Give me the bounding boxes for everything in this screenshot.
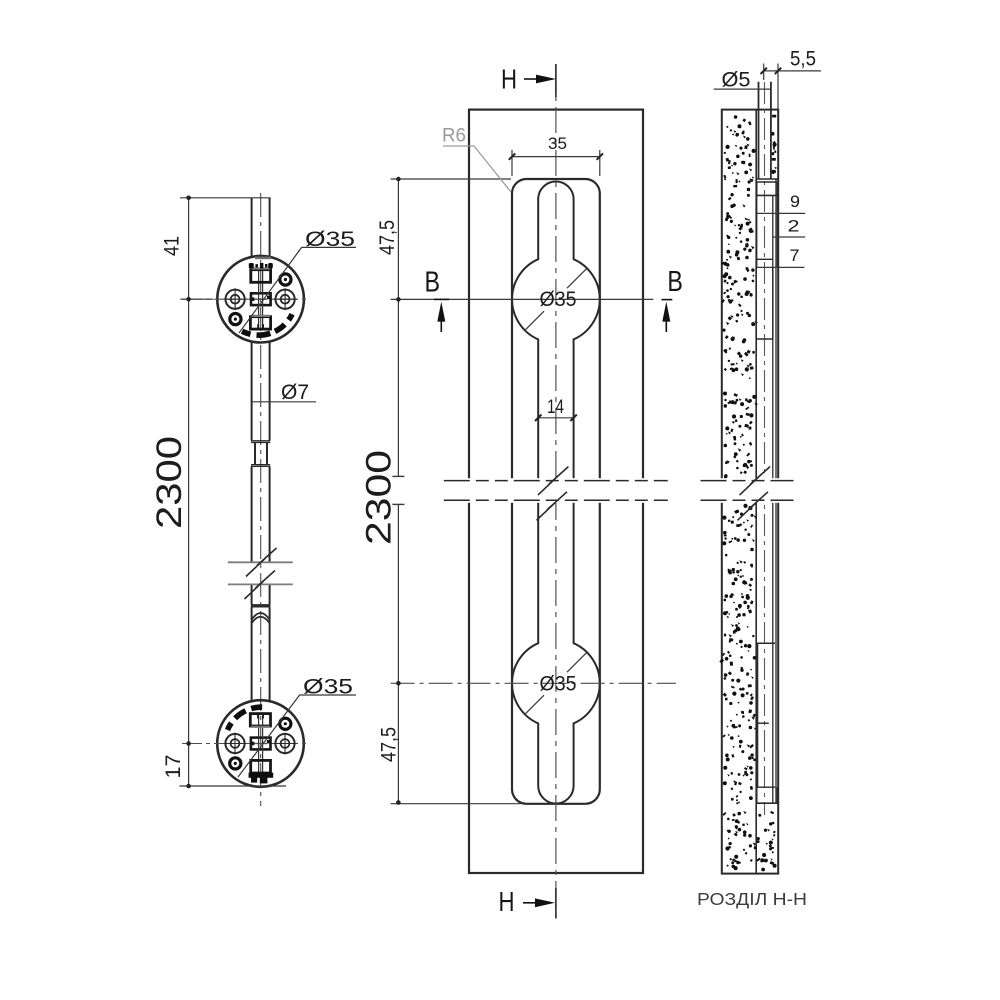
panel groove line (755, 110, 757, 874)
dim 14 tick left (535, 415, 541, 421)
dim tick middle (396, 177, 401, 182)
svg-text:2: 2 (788, 217, 800, 236)
left view vertical centerline (260, 193, 262, 806)
dim 14 tick right (570, 415, 576, 421)
rod bottom segment (252, 608, 270, 702)
dim tick middle (396, 297, 401, 302)
rod mid shank (756, 267, 773, 339)
top cam circle O35 (217, 256, 304, 343)
right zigzag upper (740, 467, 771, 496)
rod feature line 7 (757, 266, 805, 268)
svg-text:2300: 2300 (150, 436, 189, 529)
dim tick middle (396, 800, 401, 805)
svg-text:Ø35: Ø35 (540, 288, 577, 311)
extension line circle1 center (180, 298, 213, 300)
svg-text:B: B (425, 267, 441, 299)
rod joint dome (252, 613, 270, 623)
rod washer line (757, 258, 773, 260)
rod feature line 2 (772, 236, 805, 238)
middle vertical centerline (555, 64, 557, 918)
middle zigzag upper (538, 467, 569, 496)
rod step upper (251, 441, 270, 443)
left break line lower (228, 583, 293, 585)
section B-B line (391, 298, 654, 300)
chipboard speckle texture (719, 115, 777, 872)
section H top arrow (524, 78, 536, 80)
rod shank line (772, 195, 774, 803)
panel outline (722, 110, 778, 874)
svg-text:5,5: 5,5 (790, 48, 816, 71)
rod feature line 9 (757, 212, 806, 214)
leader O7 (252, 401, 316, 403)
extension line rod top (180, 197, 271, 199)
bottom cam circle O35 (217, 700, 304, 787)
dim tick (186, 297, 191, 302)
extension slot bottom (391, 803, 521, 805)
rod lower segment lines (757, 643, 759, 787)
svg-text:H: H (501, 64, 517, 95)
svg-text:Ø35: Ø35 (303, 676, 353, 699)
left break line upper (228, 561, 293, 563)
section H bottom arrow (523, 902, 535, 904)
svg-text:35: 35 (548, 134, 567, 153)
dim 5,5 extension lines (764, 64, 778, 110)
rod middle segment (252, 466, 270, 561)
rod head top (756, 178, 778, 180)
svg-text:Ø35: Ø35 (540, 673, 577, 696)
section H top tick (555, 64, 557, 97)
section H bottom tick (555, 888, 557, 918)
left break zigzag lower (245, 571, 276, 600)
leader O5 (714, 88, 771, 90)
rod joint bar (251, 604, 271, 607)
svg-text:РОЗДІЛ Н-Н: РОЗДІЛ Н-Н (697, 889, 807, 909)
plate outline (469, 110, 643, 873)
svg-text:47,5: 47,5 (376, 220, 399, 255)
section B right arrow (662, 299, 673, 301)
rod collar line (757, 194, 778, 196)
svg-text:Ø35: Ø35 (305, 228, 355, 251)
rod stub above panel (759, 82, 771, 179)
rod centerline right view (764, 82, 766, 815)
dim tick (186, 784, 191, 789)
rod lower segment (252, 585, 270, 605)
circle1 diameter leader (525, 268, 587, 330)
slot rounded rectangle (512, 179, 600, 804)
svg-text:7: 7 (790, 246, 800, 265)
svg-text:2300: 2300 (360, 450, 399, 545)
extension circle2 center (391, 682, 676, 684)
svg-text:B: B (667, 266, 683, 298)
right break line lower (701, 499, 794, 501)
extension slot top (391, 178, 511, 180)
rod step lower (251, 465, 270, 467)
svg-text:17: 17 (162, 755, 185, 779)
rod narrow neck (255, 442, 267, 465)
groove face line (775, 179, 777, 803)
leader O35 bottom (238, 695, 356, 777)
dim 5,5 tick left (761, 68, 767, 74)
break gap right (700, 478, 800, 503)
R6 leader (443, 146, 511, 192)
dim break tick upper (392, 475, 404, 477)
keyhole slot profile (512, 182, 600, 804)
break gap middle (444, 478, 668, 503)
dim column line lower (397, 504, 399, 802)
rod bottom head (756, 787, 778, 803)
right break line upper (701, 480, 794, 482)
rod lower feature low (756, 786, 775, 788)
rod head chamfer (757, 182, 778, 195)
dim 14 line (538, 417, 573, 419)
rod lower feature top (756, 642, 775, 644)
svg-text:14: 14 (547, 397, 564, 418)
extension line part bottom (180, 785, 287, 787)
dim tick (186, 741, 191, 746)
dim 35 tick right (597, 153, 603, 159)
rod lower feature mid (756, 722, 769, 724)
bottom cam slot foot (249, 773, 274, 784)
right zigzag lower (738, 492, 769, 521)
dim 5,5 tick right (775, 68, 781, 74)
svg-text:R6: R6 (442, 126, 466, 147)
svg-text:47,5: 47,5 (378, 727, 401, 762)
left break zigzag upper (246, 548, 277, 577)
middle break line upper (444, 480, 668, 482)
circle2 diameter leader (525, 652, 587, 714)
dim tick (186, 196, 191, 201)
dim column line upper (397, 179, 399, 476)
middle zigzag lower (537, 492, 568, 521)
svg-text:H: H (499, 886, 515, 917)
svg-text:Ø7: Ø7 (281, 381, 309, 404)
svg-text:41: 41 (161, 236, 184, 256)
dim 35 line (512, 156, 600, 158)
dim 5,5 line (764, 70, 821, 72)
svg-text:9: 9 (790, 192, 800, 211)
leader O35 top (239, 247, 356, 333)
rod upper segment (252, 198, 270, 257)
rod nut section (757, 195, 778, 267)
dimension line 41/2300/17 (188, 198, 190, 786)
middle break line lower (444, 499, 668, 501)
svg-text:Ø5: Ø5 (722, 69, 751, 92)
dim break tick lower (392, 503, 404, 505)
dim 35 extensions (512, 150, 600, 176)
dim 35 tick left (509, 153, 515, 159)
section B left arrow (434, 298, 449, 300)
dim tick middle (396, 681, 401, 686)
rod below top cam (252, 342, 270, 441)
